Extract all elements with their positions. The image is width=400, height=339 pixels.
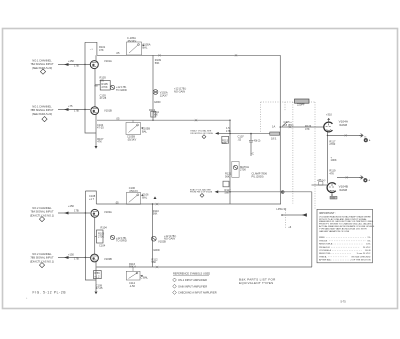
svg-text:C BAL: C BAL — [141, 276, 149, 280]
svg-text:56K: 56K — [152, 260, 157, 264]
svg-text:GRID: GRID — [153, 248, 160, 252]
svg-text:100 B: 100 B — [365, 250, 371, 252]
svg-text:+75: +75 — [68, 104, 73, 108]
svg-text:BAL: BAL — [143, 46, 148, 50]
svg-text:TRIODE: TRIODE — [319, 240, 328, 242]
svg-text:TRIM A: TRIM A — [319, 255, 327, 258]
svg-text:ON-1 INPUT AMPLIFIER: ON-1 INPUT AMPLIFIER — [178, 278, 207, 282]
svg-text:6AN8: 6AN8 — [339, 188, 347, 192]
svg-text:6.8 (5%): 6.8 (5%) — [284, 123, 294, 127]
svg-text:.05: .05 — [116, 51, 120, 55]
svg-text:TO GRID: TO GRID — [116, 88, 127, 92]
svg-text:PRI AUDIO: PRI AUDIO — [319, 246, 330, 249]
svg-text:+1.2: +1.2 — [94, 274, 100, 278]
svg-text:+1 7: +1 7 — [89, 197, 95, 201]
svg-text:+150: +150 — [68, 204, 74, 208]
svg-text:1A: 1A — [272, 124, 275, 128]
svg-text:(SEE PARA 5-23): (SEE PARA 5-23) — [32, 66, 52, 70]
svg-text:47-25: 47-25 — [100, 96, 107, 100]
svg-text:LP6A 30: LP6A 30 — [276, 207, 286, 211]
svg-text:78B SIGNAL INPUT: 78B SIGNAL INPUT — [30, 108, 54, 112]
svg-text:LARGER VARIATION OF LINE: LARGER VARIATION OF LINE — [319, 230, 350, 233]
svg-text:47K: 47K — [329, 171, 334, 175]
svg-text:220PF: 220PF — [297, 103, 305, 107]
svg-text:NO GAIN: NO GAIN — [174, 89, 185, 93]
svg-text:FIG. 5-12 PL-2B: FIG. 5-12 PL-2B — [33, 291, 67, 295]
svg-text:V102B: V102B — [158, 239, 166, 243]
svg-text:NO.1 CHANNEL: NO.1 CHANNEL — [32, 59, 52, 63]
svg-text:TO GRID: TO GRID — [116, 239, 127, 243]
svg-text:EST AS CHECKED: EST AS CHECKED — [352, 255, 371, 258]
svg-text:17B.: 17B. — [74, 257, 80, 261]
svg-text:+85 (+): +85 (+) — [317, 178, 325, 182]
svg-text:5 mm 20 VDC: 5 mm 20 VDC — [357, 253, 371, 255]
svg-text:+C: +C — [251, 151, 255, 155]
svg-text:20 VDC: 20 VDC — [363, 247, 371, 249]
svg-text:2700: 2700 — [329, 142, 335, 146]
svg-text:V101A: V101A — [104, 59, 112, 63]
svg-text:V103B: V103B — [104, 257, 112, 261]
svg-text:BAL: BAL — [142, 129, 147, 133]
svg-text:270K: 270K — [102, 85, 108, 89]
svg-text:17B.: 17B. — [74, 108, 80, 112]
svg-text:FROM PT. SHOWN TO CHASSIS GND.: FROM PT. SHOWN TO CHASSIS GND. ALL VALUE… — [319, 223, 372, 226]
svg-text:17B.: 17B. — [74, 208, 80, 212]
svg-text:BAL: BAL — [142, 195, 147, 199]
svg-text:(EXACTLY AS NO.1): (EXACTLY AS NO.1) — [30, 213, 54, 217]
svg-text:(SEE PARA 5-23): (SEE PARA 5-23) — [32, 112, 52, 116]
svg-text:47-25: 47-25 — [96, 286, 103, 290]
svg-text:270K: 270K — [98, 235, 104, 239]
svg-text:W56: W56 — [94, 271, 100, 275]
svg-text:NO.2 CHANNEL: NO.2 CHANNEL — [32, 206, 52, 210]
svg-text:5-75: 5-75 — [341, 300, 347, 304]
svg-text:18 5.: 18 5. — [271, 136, 277, 140]
svg-text:47K: 47K — [99, 48, 104, 52]
svg-text:47K: 47K — [97, 140, 102, 144]
svg-text:40(-2): 40(-2) — [254, 139, 261, 143]
svg-text:REFERENCE SYMBOLS USED: REFERENCE SYMBOLS USED — [173, 272, 210, 276]
svg-text:47K: 47K — [305, 127, 310, 131]
svg-text:RESISTOR A: RESISTOR A — [319, 243, 333, 246]
svg-text:GRID: GRID — [154, 100, 161, 104]
svg-text:IMPORTANT :: IMPORTANT : — [319, 211, 336, 215]
svg-text:.1-50: .1-50 — [129, 284, 135, 288]
svg-text:56K: 56K — [225, 191, 230, 195]
svg-text:100K: 100K — [331, 158, 337, 162]
svg-text:78A SIGNAL INPUT: 78A SIGNAL INPUT — [30, 62, 54, 66]
svg-text:+310: +310 — [326, 112, 332, 116]
svg-text:78A SIGNAL INPUT: 78A SIGNAL INPUT — [30, 210, 54, 214]
svg-text:56K: 56K — [94, 86, 98, 88]
svg-text:NO.2 CHANNEL: NO.2 CHANNEL — [32, 252, 52, 256]
svg-text:VOLTAGE A: VOLTAGE A — [319, 249, 331, 252]
svg-text:WIRE: WIRE — [319, 237, 325, 239]
svg-text:C104: C104 — [99, 243, 106, 247]
svg-text:56K: 56K — [225, 174, 230, 178]
svg-text:47-25: 47-25 — [97, 126, 104, 130]
svg-text:GAIN INPUT AMPLIFIER: GAIN INPUT AMPLIFIER — [178, 284, 207, 288]
svg-text:EQUIVALENT TYPES: EQUIVALENT TYPES — [239, 281, 273, 285]
svg-text:(EXACTLY AS NO.1): (EXACTLY AS NO.1) — [30, 259, 54, 263]
svg-text:56K: 56K — [222, 141, 227, 145]
svg-text:.05/1KV: .05/1KV — [127, 137, 136, 141]
svg-text:1%: 1% — [367, 237, 370, 239]
svg-text:12AX7: 12AX7 — [160, 94, 168, 98]
svg-text:.05: .05 — [115, 200, 119, 204]
svg-text:R104: R104 — [101, 225, 108, 229]
svg-text:6AN8: 6AN8 — [339, 123, 347, 127]
svg-text:2 OF THE SECTION: 2 OF THE SECTION — [350, 260, 371, 262]
svg-text:PIL (2000): PIL (2000) — [252, 174, 264, 178]
svg-text:17B.: 17B. — [74, 64, 80, 68]
svg-text:AFTER BAL: AFTER BAL — [319, 259, 332, 262]
svg-text:.05/1KV: .05/1KV — [129, 189, 138, 193]
svg-text:56K: 56K — [155, 61, 160, 65]
svg-text:56K: 56K — [153, 212, 158, 216]
svg-text:.02: .02 — [238, 137, 242, 141]
svg-text:17B.: 17B. — [226, 129, 232, 133]
svg-text:47K: 47K — [100, 78, 105, 82]
svg-text:V101B: V101B — [104, 108, 112, 112]
svg-text:5%: 5% — [367, 240, 370, 242]
svg-text:.05: .05 — [116, 116, 120, 120]
svg-text:V103A: V103A — [104, 210, 112, 214]
svg-text:CHECKING A INPUT AMPLIFIER: CHECKING A INPUT AMPLIFIER — [178, 291, 217, 295]
svg-text:16: 16 — [364, 136, 366, 138]
svg-text:+150: +150 — [68, 59, 74, 63]
svg-text:+150: +150 — [68, 252, 74, 256]
svg-text:16: 16 — [364, 178, 366, 180]
svg-text:78B SIGNAL INPUT: 78B SIGNAL INPUT — [30, 256, 54, 260]
svg-text:FROM PIN 6 OF V102B: FROM PIN 6 OF V102B — [190, 192, 213, 194]
svg-text:56K: 56K — [153, 113, 158, 117]
svg-text:FROM PIN 6 OF V102A: FROM PIN 6 OF V102A — [191, 132, 214, 135]
svg-text:2700: 2700 — [240, 168, 246, 172]
svg-text:10%: 10% — [366, 244, 370, 246]
svg-text:.05/1KV: .05/1KV — [127, 39, 136, 43]
svg-text:RESISTOR: RESISTOR — [319, 253, 331, 255]
svg-text:NO.1 CHANNEL: NO.1 CHANNEL — [32, 105, 52, 109]
svg-text:56K A: 56K A — [129, 264, 136, 268]
